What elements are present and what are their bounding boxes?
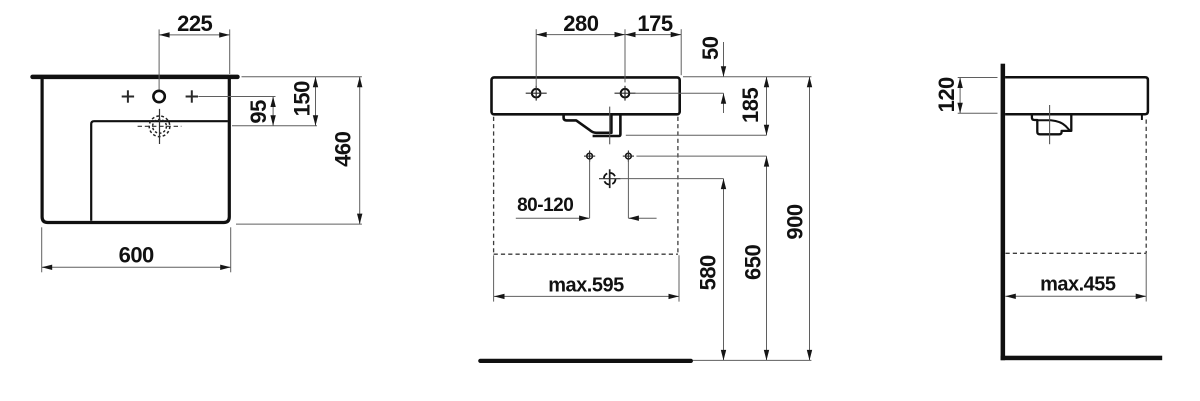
- dimension 460 extension lines: [242, 76, 362, 78]
- svg-text:185: 185: [738, 88, 763, 123]
- svg-text:175: 175: [637, 11, 672, 36]
- leader drain bottom to 185 dimension: [626, 134, 767, 136]
- washbasin front view body: [492, 77, 680, 114]
- svg-text:150: 150: [290, 81, 315, 116]
- dimension 50: [723, 42, 725, 77]
- svg-text:580: 580: [696, 255, 721, 290]
- svg-text:95: 95: [246, 100, 271, 124]
- concealed installation dashed outline (side view): [1145, 120, 1147, 254]
- dimension 175: [625, 34, 681, 36]
- svg-text:max.595: max.595: [548, 275, 624, 297]
- dimension 80-120: [516, 217, 590, 219]
- dimension 600: [42, 266, 231, 268]
- dimension max.455 extension line: [1145, 253, 1147, 301]
- leader fixing holes to 650 dimension: [636, 155, 766, 157]
- front apron tick (side view): [1141, 115, 1143, 120]
- tap hole (top view): [153, 91, 164, 102]
- leader tap holes to 50 dimension: [635, 92, 724, 94]
- leader line from tap holes to 95 dimension: [198, 96, 275, 98]
- drain with centre cross (top view): [149, 116, 170, 137]
- svg-text:460: 460: [330, 131, 355, 166]
- tap hole cross mark left: [122, 96, 134, 98]
- drain centre line (front view): [609, 107, 611, 145]
- dimension max.595: [494, 295, 679, 297]
- dimension 225 extension lines: [158, 29, 160, 89]
- dimension 900: [809, 77, 811, 361]
- drain outer wall (front view): [593, 115, 621, 136]
- bowl underside and drain profile (side view): [1032, 115, 1071, 134]
- fixing hole extension lines down: [589, 160, 591, 218]
- dimension 280: [536, 34, 625, 36]
- tap hole left (front view): [532, 89, 541, 98]
- svg-text:900: 900: [782, 204, 807, 239]
- svg-text:120: 120: [934, 77, 959, 112]
- tap hole cross mark right: [186, 96, 198, 98]
- washbasin top-view: outer rim outline: [42, 79, 229, 223]
- dimension 225: [159, 34, 230, 36]
- drain spout inner curve (side view): [1037, 120, 1070, 130]
- svg-text:650: 650: [740, 245, 765, 280]
- svg-text:80-120: 80-120: [517, 195, 573, 216]
- washbasin top-view: wall mounting plate (back edge): [30, 75, 239, 80]
- dimension 95: [272, 97, 274, 126]
- dimension 95 lower extension line: [232, 125, 317, 127]
- dimension 600 extension lines: [41, 227, 43, 272]
- dimension 120 extension lines: [958, 77, 998, 79]
- svg-text:280: 280: [563, 11, 598, 36]
- washbasin side profile: [1005, 77, 1148, 114]
- dimension max.595 extension lines: [493, 255, 495, 301]
- dimension 460: [359, 77, 361, 224]
- concealed installation dashed outline (front view): [493, 117, 495, 254]
- floor line (front view): [478, 359, 693, 363]
- washbasin top-view: inner bowl outline: [91, 121, 228, 221]
- svg-text:50: 50: [698, 36, 723, 60]
- tap hole right (front view): [621, 89, 630, 98]
- dimension 650: [766, 156, 768, 360]
- dimension 150: [315, 77, 317, 126]
- top extension line to 900 dimension: [683, 76, 811, 78]
- floor line (side view): [1001, 356, 1163, 361]
- svg-text:225: 225: [177, 11, 212, 36]
- wall fixing hole right: [626, 153, 632, 159]
- floor extension line to height dimensions: [693, 359, 811, 361]
- bowl underside and drain outline (front view): [564, 115, 612, 133]
- waste pipe outlet symbol: [604, 173, 616, 185]
- dimension 185: [766, 77, 768, 135]
- drain centre line (side view): [1049, 105, 1051, 144]
- svg-text:600: 600: [119, 243, 154, 268]
- dimension 120: [959, 78, 961, 114]
- wall line (side view): [1001, 64, 1006, 361]
- leader waste outlet to 580 dimension: [621, 178, 724, 180]
- dimension max.455: [1005, 295, 1146, 297]
- top dimension extension lines (front view): [535, 29, 537, 88]
- dimension 580: [723, 179, 725, 361]
- svg-text:max.455: max.455: [1040, 274, 1116, 296]
- wall fixing hole left: [587, 153, 593, 159]
